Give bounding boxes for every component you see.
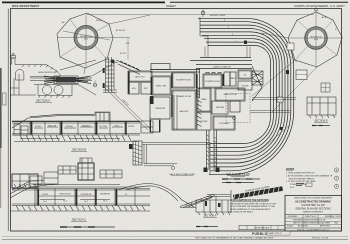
curve line 9	[198, 18, 294, 174]
west inner corridor lines	[174, 95, 177, 130]
svg-text:HALF THE PLAN: HALF THE PLAN	[226, 172, 250, 176]
section E embankment slope	[180, 194, 215, 208]
svg-text:FILE No 1-27-66: FILE No 1-27-66	[312, 238, 329, 240]
section C top boxes	[58, 166, 76, 174]
east store room	[238, 81, 252, 90]
ramp diagonal to section area	[104, 86, 151, 130]
curve line 2	[206, 42, 273, 147]
power room west	[172, 72, 195, 88]
svg-text:STRUCTURE AND THE NUMBERS REFE: STRUCTURE AND THE NUMBERS REFER TO THE	[230, 205, 275, 208]
svg-text:HALF SECTIONAL PLAN: HALF SECTIONAL PLAN	[170, 173, 195, 176]
emplacement 2 ring band	[306, 28, 326, 48]
latrine	[212, 101, 228, 114]
curve line 8	[200, 22, 291, 171]
dimension line between gun axes	[87, 14, 314, 16]
svg-text:POWDER: POWDER	[65, 126, 73, 128]
plan scale bar 1	[222, 178, 260, 180]
emplacement 1 spokes	[60, 19, 109, 59]
corridor end doors black	[204, 168, 208, 173]
svg-text:AS CONSTRUCTED DRAWING: AS CONSTRUCTED DRAWING	[295, 201, 331, 204]
section B heavy roof line	[12, 120, 140, 122]
section A platform	[30, 77, 92, 85]
guard room	[172, 90, 196, 130]
switch box on vertical bundle	[287, 43, 294, 50]
emplacement 2 horizontal axis	[288, 37, 343, 39]
radial tick across bundle lower	[258, 125, 290, 152]
track labels along curves	[210, 14, 237, 43]
east column rooms	[197, 88, 211, 112]
black marker on bundle	[280, 127, 283, 130]
svg-text:1. GUNS DATA FROM THE FOR: 1. GUNS DATA FROM THE FORT	[286, 172, 316, 175]
west entry stub	[150, 119, 160, 132]
section C hill inner line	[126, 186, 178, 201]
svg-text:AZ 292°-30': AZ 292°-30'	[116, 29, 126, 32]
section C hill profile right	[118, 183, 194, 207]
left edge scan marks	[0, 68, 2, 148]
survey marker above emplacement 2	[314, 8, 317, 11]
svg-text:B.R.: B.R.	[144, 88, 148, 90]
covered way vertical branch	[144, 145, 177, 166]
svg-text:PHOTOSTAT COPY OF THE ANNEXES: PHOTOSTAT COPY OF THE ANNEXES OF THE COA…	[195, 237, 274, 240]
radial tick across bundle upper	[262, 33, 297, 62]
vertical corridor west side	[197, 68, 200, 98]
section C roof line	[30, 185, 140, 187]
emplacement 1 outer ring	[74, 26, 98, 50]
svg-text:PUEBLO: PUEBLO	[252, 232, 268, 236]
switch box 2 on vertical bundle	[277, 97, 283, 102]
svg-text:GALLERY: GALLERY	[179, 110, 189, 113]
svg-text:AZ 12°: AZ 12°	[322, 16, 328, 19]
section C poche verticals	[38, 189, 40, 206]
section C main band	[12, 189, 150, 206]
section B tower	[96, 113, 109, 122]
section C inner shelf	[38, 196, 150, 200]
svg-text:CABLE CORRIDOR: CABLE CORRIDOR	[213, 65, 232, 68]
leader to azimuth note	[109, 15, 150, 24]
svg-text:No 1: No 1	[43, 201, 47, 203]
section D scale bar	[312, 125, 330, 127]
black mark on curves top	[244, 41, 247, 45]
section A left tower	[11, 54, 16, 65]
svg-text:POWER ROOM: POWER ROOM	[176, 80, 191, 82]
svg-text:PASS: PASS	[201, 98, 207, 101]
svg-text:GUARD ROOM: GUARD ROOM	[177, 95, 191, 98]
drawing border left double line	[7, 9, 9, 231]
svg-text:SECTION A: SECTION A	[36, 99, 50, 103]
bench mark west	[93, 83, 97, 87]
wall poche bars west	[128, 72, 130, 94]
svg-text:ELECTRICAL SHEET: ELECTRICAL SHEET	[313, 221, 331, 224]
section B room text smudges	[35, 125, 135, 129]
emplacement 1 diagonal leader	[63, 31, 110, 40]
section E top band	[207, 195, 231, 197]
retaining wall hatched	[133, 141, 142, 165]
section A dim leaders	[60, 60, 116, 95]
entrance corridor down	[207, 130, 217, 170]
section A magazine arches	[42, 85, 51, 94]
west entry stub poche	[150, 120, 151, 132]
small dark block west	[129, 144, 133, 149]
section E rooms band	[180, 190, 231, 213]
svg-text:STORE: STORE	[201, 121, 209, 123]
west column poche	[171, 95, 172, 117]
svg-text:AS LISTED IN THE INDEX: AS LISTED IN THE INDEX	[230, 210, 253, 213]
svg-text:N 61°E: N 61°E	[96, 20, 103, 22]
block diagonal corner	[252, 66, 262, 101]
section A recoil block	[54, 76, 78, 84]
emplacement 2 spokes	[295, 20, 337, 60]
svg-text:SHELL ROOM: SHELL ROOM	[223, 94, 236, 96]
svg-text:AIR LOCK: AIR LOCK	[135, 76, 145, 79]
svg-text:SHELL RM: SHELL RM	[48, 126, 57, 128]
svg-text:PLOT RM: PLOT RM	[99, 126, 107, 128]
svg-text:SHEET: SHEET	[166, 4, 176, 8]
section B roof profile	[12, 112, 110, 128]
emplacement 1 horizontal axis	[57, 37, 130, 39]
svg-text:CORPS OF ENGINEERS, U.S. ARMY: CORPS OF ENGINEERS, U.S. ARMY	[294, 4, 345, 8]
svg-text:6-IN BATTERY No 293: 6-IN BATTERY No 293	[301, 204, 325, 207]
svg-text:SECTION C: SECTION C	[72, 218, 86, 222]
gallery wall blobs	[103, 68, 105, 73]
note sketch marks	[296, 184, 304, 186]
svg-text:HARBOR DEFENSES: HARBOR DEFENSES	[303, 211, 324, 214]
section B room divisions	[30, 122, 125, 136]
section E slope hatch	[186, 196, 212, 207]
small detail box right of bend	[321, 83, 330, 92]
svg-text:STORE: STORE	[42, 194, 49, 196]
small rooms pair	[224, 72, 230, 86]
emplacement 1 inner circle	[77, 28, 95, 46]
circled letter A	[334, 168, 338, 172]
svg-text:EL 20.5: EL 20.5	[120, 53, 126, 55]
svg-text:STORE: STORE	[35, 126, 42, 128]
transformer vault box on bundle	[296, 70, 307, 80]
section E baseline hatch	[198, 212, 230, 215]
gun 1 gallery stair	[103, 57, 117, 93]
svg-text:GRID SYSTEM REF. SHEETS: GRID SYSTEM REF. SHEETS	[289, 178, 315, 180]
svg-text:DATE OF COMPLETION: DATE OF COMPLETION	[293, 221, 314, 224]
vent circle	[233, 117, 236, 120]
section C floor hatch	[16, 206, 145, 211]
svg-text:P.S.R.: P.S.R.	[115, 126, 120, 128]
curve line 3	[204, 39, 276, 152]
section A crest line	[15, 65, 61, 77]
section B inner fittings	[34, 127, 123, 128]
emplacement 1 apron lines	[84, 59, 118, 74]
office	[230, 101, 240, 112]
power room east	[203, 74, 222, 88]
scale bar bottom left	[60, 226, 115, 228]
east oil room	[238, 70, 252, 79]
shell room east	[215, 88, 245, 101]
corridor rung hatch	[207, 135, 217, 167]
curve line 1	[208, 46, 271, 144]
revision table bottom strip	[239, 226, 285, 230]
storage bottom	[213, 116, 235, 130]
corridor from emplacement 1	[116, 60, 141, 75]
emplacement 2 inner circle	[307, 29, 324, 46]
svg-text:SHEET 14 OF 17: SHEET 14 OF 17	[269, 233, 282, 235]
wall hatch marks west corridor	[197, 87, 202, 127]
svg-text:SHELL RM: SHELL RM	[156, 86, 166, 88]
svg-text:PASSAGE: PASSAGE	[82, 125, 91, 128]
section A profile hatch	[22, 65, 57, 73]
svg-text:No 3: No 3	[84, 201, 88, 203]
leader from emplacement 2 down-left	[252, 60, 295, 96]
curve line 5	[200, 32, 282, 159]
svg-text:SECTION B: SECTION B	[72, 148, 86, 152]
svg-text:POWDER RM: POWDER RM	[81, 194, 92, 196]
bench mark circle	[172, 167, 175, 170]
section A door arch	[16, 69, 24, 80]
svg-text:No 4: No 4	[290, 187, 294, 189]
svg-text:ENGINE RM: ENGINE RM	[100, 194, 110, 196]
svg-text:DETAIL DRAWINGS OF THE SEVERAL: DETAIL DRAWINGS OF THE SEVERAL PARTS	[230, 208, 271, 211]
covered way corridor west	[142, 142, 210, 144]
top scan edge line	[170, 1, 348, 3]
emplacement 1 vertical axis	[85, 13, 87, 69]
azimuth labels emplacement 2	[296, 16, 337, 72]
machine bumps power room	[206, 72, 221, 74]
emplacement 2 polygon	[288, 12, 342, 67]
section C left approach slope	[10, 180, 55, 198]
braced room dark (X pattern)	[252, 71, 263, 85]
svg-text:PREPARED UNDER SUPERVISION: PREPARED UNDER SUPERVISION OF	[293, 218, 326, 221]
curve line 6	[200, 29, 285, 164]
cable duct lines crossing bundle	[250, 97, 296, 112]
curve bundle left terminator	[200, 17, 208, 47]
emplacement 1 ring band	[75, 27, 96, 48]
svg-text:RADIO: RADIO	[230, 77, 237, 80]
svg-text:NOTES: NOTES	[286, 168, 295, 171]
svg-text:CREW RM: CREW RM	[155, 108, 165, 110]
section C room text smudges	[42, 194, 127, 204]
section C rooms verticals	[35, 189, 135, 206]
track-to-corridor connectors	[205, 47, 250, 58]
svg-text:APPROVED: APPROVED	[320, 224, 331, 227]
svg-text:No 4: No 4	[103, 201, 107, 203]
plan scale bar 2	[222, 182, 254, 184]
svg-text:UNDER DIRECTION OF ARMY ENGI: UNDER DIRECTION OF ARMY ENGINEERS	[294, 197, 333, 200]
svg-text:SECTION F: SECTION F	[204, 215, 217, 218]
west lower room	[150, 97, 170, 119]
west rooms cluster	[128, 71, 152, 82]
svg-text:2. A FOR EXISTING CONDITI: 2. A FOR EXISTING CONDITION SEE DRAWINGS…	[286, 175, 333, 178]
section C cupola	[80, 158, 92, 163]
svg-text:SERIAL No 7 SHTS: SERIAL No 7 SHTS	[325, 215, 342, 218]
section E poche	[205, 201, 207, 206]
circled letter S	[334, 176, 338, 180]
svg-text:3. ST SPLICE BOX AT THE TIME: 3. ST SPLICE BOX AT THE TIMES	[286, 180, 316, 183]
azimuth labels emplacement 1	[62, 20, 130, 55]
svg-text:SECTION D: SECTION D	[314, 120, 327, 123]
svg-text:GENERAL PLAN AND SECTIONS: GENERAL PLAN AND SECTIONS	[295, 208, 331, 211]
black marker on bundle 2	[286, 70, 289, 74]
section E scale bar	[196, 226, 218, 228]
section C left approach boxes	[30, 176, 42, 184]
emplacement 2 vertical axis	[315, 10, 317, 68]
circled letter B	[334, 184, 338, 188]
survey marker top center	[201, 11, 204, 14]
title block bottom row	[285, 227, 342, 229]
section C tower bold outline	[78, 163, 94, 180]
svg-text:WAR DEPARTMENT: WAR DEPARTMENT	[12, 4, 40, 8]
dimension drop line emplacement 1	[127, 38, 129, 61]
main corridor top	[150, 58, 252, 73]
section B poche verticals	[31, 122, 33, 135]
svg-text:AS SHOWN: AS SHOWN	[298, 224, 308, 227]
svg-text:LATRINE: LATRINE	[216, 106, 225, 109]
section A left wall detail	[10, 74, 36, 95]
west lobby room above shell	[151, 64, 170, 70]
svg-text:1944: 1944	[334, 222, 338, 224]
curve bundle bottom terminator	[209, 142, 211, 175]
section C left bold box	[12, 174, 38, 188]
section B main band	[12, 122, 140, 136]
svg-text:EXPLANATION OF THE NOTATION: EXPLANATION OF THE NOTATION	[231, 199, 269, 202]
section C ground line	[10, 210, 150, 212]
section B roof second line	[30, 114, 94, 117]
emplacement 1 polygon	[57, 13, 113, 68]
curve line 7	[200, 25, 288, 167]
svg-text:STORAGE: STORAGE	[219, 122, 229, 125]
section A breech mass	[56, 77, 76, 83]
section B floor	[14, 139, 138, 142]
leader from emplacement 2 down-left 2	[272, 67, 317, 112]
svg-text:M.G.: M.G.	[132, 88, 137, 90]
section A gun barrel	[44, 76, 91, 84]
svg-text:SCALE: SCALE	[287, 224, 294, 227]
shell room west	[152, 76, 171, 95]
svg-text:GUN A CREST EL 21.0: GUN A CREST EL 21.0	[38, 71, 57, 74]
emplacement 2 outer ring	[305, 27, 328, 50]
curve line 4	[202, 35, 279, 155]
room labels	[132, 65, 249, 125]
svg-text:OIL: OIL	[125, 194, 128, 196]
svg-text:No 2: No 2	[63, 201, 67, 203]
section B footing hatch	[20, 135, 131, 141]
svg-text:STORE: STORE	[128, 126, 135, 128]
dashed cover outline SE rooms	[226, 94, 250, 123]
section B right annex	[141, 121, 153, 133]
bottom margin line	[2, 239, 348, 241]
svg-text:FILE No. 1-27-66 SHEET 14 OF: FILE No. 1-27-66 SHEET 14 OF 17	[297, 230, 329, 232]
svg-text:THE NOTATION INDICATES THE LOC: THE NOTATION INDICATES THE LOCATION OF T…	[230, 203, 277, 206]
svg-text:POWER ROOM: POWER ROOM	[205, 81, 220, 83]
svg-text:STORE: STORE	[242, 86, 250, 88]
svg-text:REVISIONS DATE: REVISIONS DATE	[255, 227, 270, 230]
section B left end detail	[14, 124, 20, 135]
svg-text:SHELL ROOM: SHELL ROOM	[59, 194, 71, 196]
leader from emplacement 2 left	[262, 33, 288, 38]
